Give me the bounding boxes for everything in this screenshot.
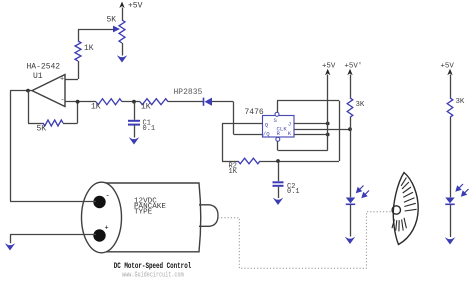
node: - input junction xyxy=(76,100,80,104)
encoder slotted wheel xyxy=(393,173,418,245)
svg-text:U1: U1 xyxy=(33,72,43,81)
+5V' power arrow (CLK pullup) xyxy=(347,69,352,76)
wire 1K to op-amp + input xyxy=(78,61,80,79)
dotted mechanical linkage xyxy=(218,212,392,268)
svg-text:+: + xyxy=(60,76,64,84)
svg-text:0.1: 0.1 xyxy=(143,125,156,133)
ground arrow below C2 xyxy=(273,198,283,205)
node: output junction xyxy=(26,89,30,93)
wire 3K to photodiode (right) xyxy=(450,117,452,197)
wire wiper line down xyxy=(78,29,80,41)
photodiode D2 xyxy=(445,198,454,204)
ground arrow below D1 xyxy=(345,237,355,244)
svg-text:DC Motor-Speed Control: DC Motor-Speed Control xyxy=(114,261,192,271)
resistor 5K (feedback) xyxy=(43,120,63,126)
ground arrow below C1 xyxy=(129,137,139,144)
wire +5V rail down xyxy=(327,75,329,151)
ground arrow below D2 xyxy=(445,237,455,244)
light arrows into D1 xyxy=(357,186,369,198)
wire Q down to R2 xyxy=(222,124,224,162)
svg-text:3K: 3K xyxy=(456,98,465,106)
svg-text:+5V: +5V xyxy=(322,63,336,71)
svg-text:Q: Q xyxy=(265,121,269,128)
wire - input xyxy=(65,101,96,103)
photodiode D1 xyxy=(346,198,355,204)
wire down to /Q xyxy=(233,102,235,134)
resistor R2 1K xyxy=(238,158,260,164)
resistor 1K (vertical, to + input) xyxy=(75,41,81,61)
wire J to +5V rail xyxy=(294,123,328,125)
svg-text:R: R xyxy=(277,130,281,137)
svg-text:5K: 5K xyxy=(37,125,47,134)
wire D2 to ground xyxy=(450,205,452,237)
node: J junction xyxy=(326,122,330,126)
diode HP2835 xyxy=(203,98,205,106)
wire C1 top xyxy=(134,102,136,120)
svg-text:TYPE: TYPE xyxy=(134,209,153,217)
ground arrow (motor +) xyxy=(5,243,15,250)
svg-text:0.1: 0.1 xyxy=(287,188,300,196)
wire R2 to S rail xyxy=(260,161,339,163)
wire pot bottom xyxy=(122,43,124,56)
svg-text:+5V': +5V' xyxy=(345,63,363,71)
motor shaft xyxy=(199,205,218,227)
svg-text:-: - xyxy=(61,97,65,105)
svg-text:+5V: +5V xyxy=(128,2,143,11)
potentiometer 5K xyxy=(119,20,125,43)
wire output down left side xyxy=(10,91,12,201)
motor terminal - xyxy=(93,196,105,208)
wire Q output xyxy=(222,123,263,125)
node: CLK junction xyxy=(348,127,352,131)
svg-text:www.Guidecircuit.com: www.Guidecircuit.com xyxy=(122,271,184,279)
node: C2 junction xyxy=(276,159,280,163)
ground arrow below pot xyxy=(117,55,127,62)
wire feedback left vertical xyxy=(28,91,30,123)
wire pot wiper xyxy=(78,29,114,31)
wire to diode xyxy=(168,101,203,103)
svg-text:/Q: /Q xyxy=(263,131,270,138)
svg-text:HP2835: HP2835 xyxy=(174,88,203,97)
svg-text:7476: 7476 xyxy=(245,108,264,117)
node: K junction xyxy=(326,133,330,137)
wire motor + terminal xyxy=(10,234,96,236)
motor body (12VDC pancake) xyxy=(102,183,201,252)
wire D1 to ground xyxy=(350,205,352,237)
svg-text:3K: 3K xyxy=(356,101,365,109)
+5V power arrow (pot supply) xyxy=(119,2,124,9)
wire between series resistors xyxy=(122,101,140,103)
svg-text:+: + xyxy=(105,225,109,233)
wire CLK xyxy=(294,129,350,131)
svg-text:S: S xyxy=(274,117,278,124)
wire R down xyxy=(277,141,279,150)
resistor 3K (right) xyxy=(447,98,453,118)
svg-text:1K: 1K xyxy=(91,103,101,112)
svg-text:K: K xyxy=(288,130,292,137)
svg-text:1K: 1K xyxy=(84,44,94,53)
wire feedback right vertical xyxy=(63,123,78,125)
motor terminal + xyxy=(93,229,105,241)
light arrows into D2 xyxy=(456,184,468,196)
IC 7476 JK flip-flop xyxy=(263,116,295,138)
wire S top rail xyxy=(277,100,339,102)
capacitor C1 0.1 xyxy=(128,120,140,122)
svg-text:1K: 1K xyxy=(141,103,151,112)
svg-text:HA-2542: HA-2542 xyxy=(27,63,61,72)
svg-text:5K: 5K xyxy=(107,16,117,25)
R inversion bubble xyxy=(276,137,280,141)
wire R2 left xyxy=(222,161,238,163)
wire +5V to 3K (right) xyxy=(450,75,452,98)
encoder wheel hub xyxy=(392,206,400,214)
op-amp U1 HA-2542 xyxy=(32,75,65,107)
wire K to +5V rail xyxy=(294,134,328,136)
wire C2 bottom xyxy=(278,187,280,198)
capacitor C2 0.1 xyxy=(273,181,284,183)
wire C2 top xyxy=(278,161,280,181)
wire 3K to photodiode xyxy=(350,117,352,197)
resistor 1K (series, second) xyxy=(140,99,168,105)
wire +5V to 3K xyxy=(350,75,352,98)
wire diode to corner xyxy=(212,101,233,103)
wire C1 bottom xyxy=(134,126,136,138)
svg-text:J: J xyxy=(288,121,291,128)
+5V power arrow (right) xyxy=(447,69,452,76)
+5V power arrow (J/K rail) xyxy=(325,69,330,76)
svg-text:1K: 1K xyxy=(229,168,238,176)
svg-text:+5V: +5V xyxy=(441,62,455,70)
resistor 3K (CLK pullup) xyxy=(347,98,353,118)
wire S rail down right xyxy=(339,101,341,161)
wire R bottom rail xyxy=(278,150,328,152)
wheel slots xyxy=(392,178,417,232)
wire op-amp output to left xyxy=(10,90,32,92)
svg-text:-: - xyxy=(106,193,110,201)
wire motor - terminal xyxy=(10,201,96,203)
node: C1 junction xyxy=(132,100,136,104)
resistor 1K (series, first) xyxy=(96,99,122,105)
wire S up xyxy=(277,101,279,113)
S inversion bubble xyxy=(275,112,279,116)
